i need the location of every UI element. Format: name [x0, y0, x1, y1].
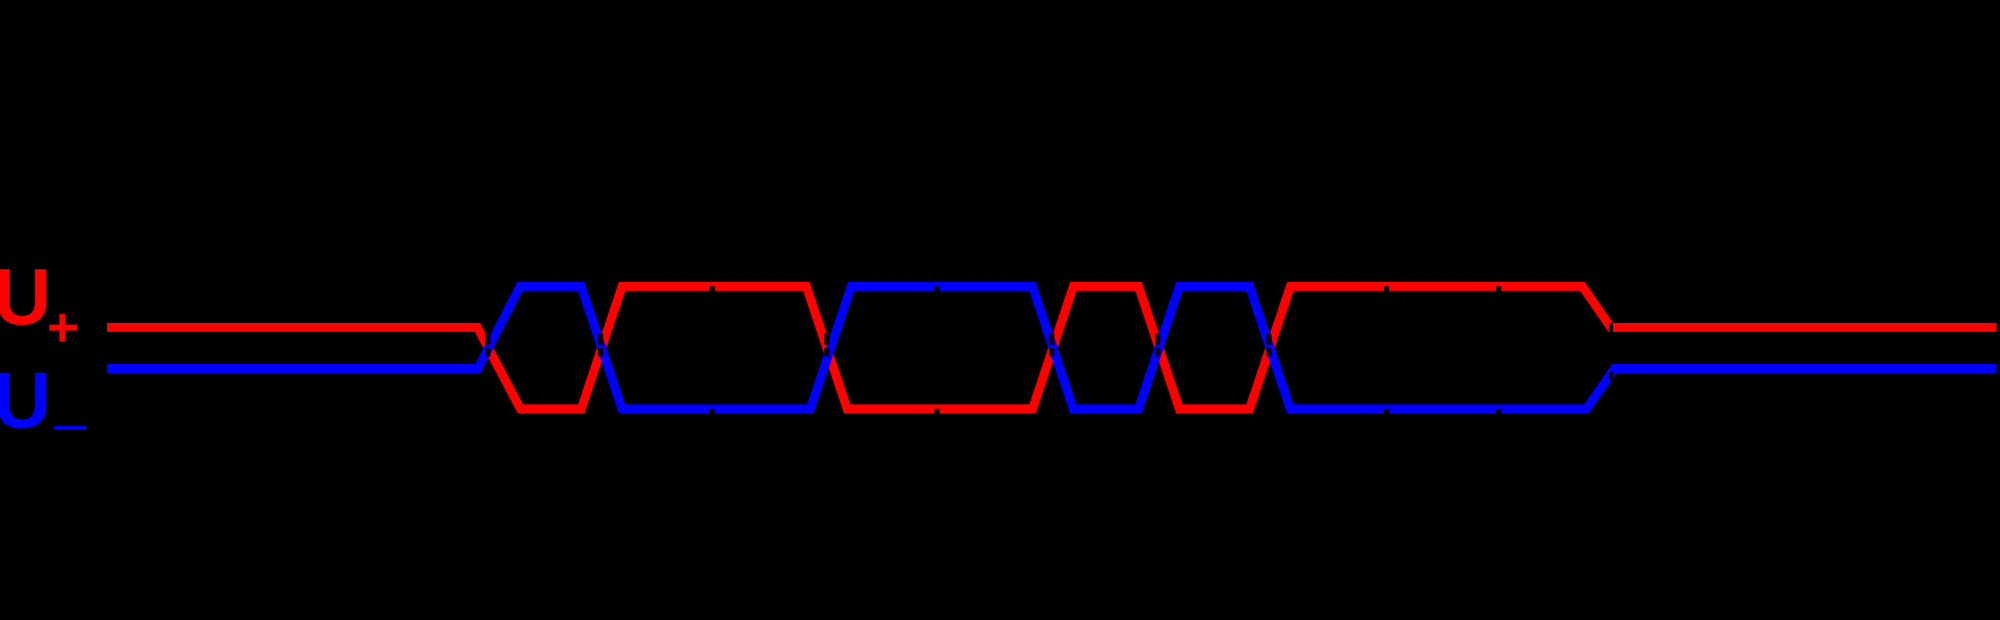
node tick on low segment at x=712.3: [710, 409, 715, 428]
node tick crossing at x=600.7 lower dash: [598, 348, 603, 356]
svg-text:U: U: [0, 356, 51, 445]
node tick end-of-burst blue junction: [1609, 372, 1613, 380]
node tick crossing at x=1157.8 lower dash: [1155, 348, 1160, 356]
svg-text:U: U: [0, 252, 51, 341]
node tick crossing at x=1051.8 upper dash: [1049, 334, 1054, 345]
label U+ plus sign vertical bar: [59, 314, 65, 342]
node tick crossing at x=1269.0 lower dash: [1267, 348, 1272, 356]
node tick end-of-burst red junction: [1609, 323, 1613, 332]
label U- minus sign bar: [54, 426, 86, 430]
node tick crossing at x=487.9 lower dash: [485, 348, 490, 356]
node tick crossing at x=600.7 upper dash: [598, 334, 603, 345]
node tick on high segment at x=712.3: [710, 286, 715, 305]
wire U+ red waveform: [107, 286, 1997, 409]
node tick crossing at x=826.8 upper dash: [824, 334, 829, 345]
node tick on low segment at x=1498.7: [1496, 409, 1501, 428]
node tick on high segment at x=1498.7: [1496, 286, 1501, 305]
label U+ plus sign horizontal bar: [49, 325, 77, 331]
node tick crossing at x=487.9 upper dash: [485, 334, 490, 345]
node tick on high segment at x=1386.6: [1384, 286, 1389, 305]
node tick crossing at x=1269.0 upper dash: [1267, 334, 1272, 345]
node tick on low segment at x=937.0: [935, 409, 940, 428]
wire U- blue waveform: [107, 286, 1997, 409]
node tick on high segment at x=937.0: [935, 286, 940, 305]
node tick crossing at x=1051.8 lower dash: [1049, 348, 1054, 356]
node tick crossing at x=826.8 lower dash: [824, 348, 829, 356]
node tick crossing at x=1157.8 upper dash: [1155, 334, 1160, 345]
node tick on low segment at x=1386.6: [1384, 409, 1389, 428]
